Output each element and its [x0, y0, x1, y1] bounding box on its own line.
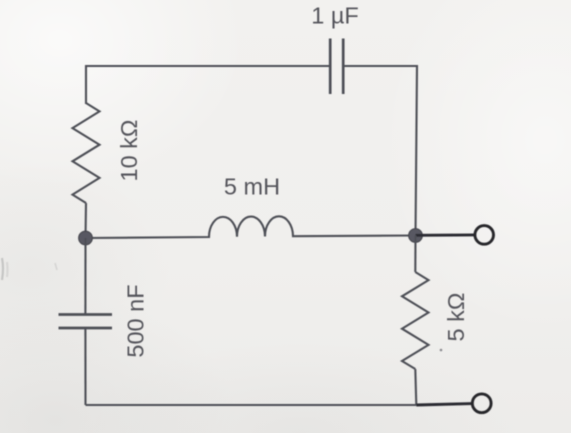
resistor 5 kΩ (right branch zigzag): [402, 272, 429, 369]
wire: node A down to capacitor C2 top plate: [84, 238, 86, 315]
wire: bottom rail: [86, 404, 417, 406]
wire: left branch from resistor to node A: [84, 203, 87, 238]
wire: node B to output terminal 1: [416, 233, 475, 236]
svg-text:10 kΩ: 10 kΩ: [116, 120, 142, 182]
svg-text:5 mH: 5 mH: [224, 174, 280, 200]
capacitor C1 (1 µF) plates: [330, 39, 343, 95]
wire: top rail right segment (C1 right plate to top-right corner, down right side to node B): [343, 66, 417, 236]
stray scan speck near 5 kΩ label: [440, 349, 443, 352]
wire: top rail left segment (top-left corner to C1 left plate): [86, 66, 330, 104]
capacitor C2 (500 nF) plates: [59, 315, 113, 329]
svg-text:5 kΩ: 5 kΩ: [443, 293, 469, 342]
wire: resistor 5 kΩ to bottom-right corner: [415, 369, 416, 405]
terminal 1 (top output, open circle): [475, 226, 494, 245]
terminal 2 (bottom output, open circle): [472, 394, 491, 413]
wire: node B down to resistor 5 kΩ: [414, 236, 416, 273]
wire: C2 bottom plate down to bottom rail: [84, 328, 86, 405]
faint scan dash left of C2 plates: [55, 263, 57, 270]
wire: bottom rail extension to terminal 2: [416, 404, 472, 405]
svg-text:1 µF: 1 µF: [311, 3, 359, 29]
resistor 10 kΩ (left branch zigzag): [73, 103, 100, 203]
node A (left junction dot): [79, 231, 93, 245]
faint scan artifact at left page edge: [2, 258, 8, 280]
wire: middle rail with inductor humps: [86, 216, 416, 238]
svg-text:500 nF: 500 nF: [123, 284, 149, 357]
node B (right junction dot): [409, 229, 423, 243]
